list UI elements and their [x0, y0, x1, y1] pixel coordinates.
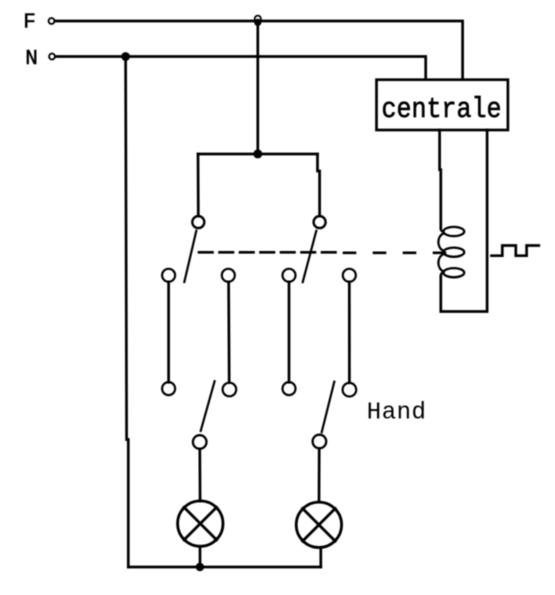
- hand switch S2 lower terminal: [313, 435, 327, 449]
- wire L2 to bottom rail: [319, 548, 322, 568]
- hand switch S2 blade: [322, 382, 335, 433]
- lamp L1: [178, 501, 223, 546]
- wire F: phase rail to centrale: [55, 21, 463, 80]
- relay contact K1 blade: [184, 231, 196, 282]
- relay contact K1 upper terminal: [192, 216, 204, 228]
- wire right contact drop: [318, 154, 320, 216]
- svg-text:Hand: Hand: [367, 400, 427, 427]
- wire column 2: [227, 282, 230, 383]
- hand switch S1 blade: [201, 381, 215, 431]
- contact lower terminal A4: [343, 269, 356, 282]
- junction dot F-tap: [254, 19, 261, 26]
- wire F-tap vertical: [256, 22, 259, 154]
- wire L1 to bottom rail: [199, 546, 202, 567]
- contact lower terminal A1: [162, 269, 175, 282]
- terminal B4: [343, 383, 357, 397]
- wire column 1: [167, 282, 170, 383]
- wire N: neutral to centrale: [56, 57, 426, 80]
- contact lower terminal A3: [283, 269, 296, 282]
- junction dot top bus: [253, 149, 262, 158]
- wire bottom rail: [128, 566, 320, 569]
- wire coil left lead: [440, 130, 441, 229]
- contact lower terminal A2: [222, 269, 235, 282]
- svg-text:N: N: [25, 48, 38, 71]
- wire S1 to lamp L1: [198, 449, 201, 501]
- wire coil bottom loop: [441, 130, 487, 312]
- terminal B2: [223, 383, 237, 397]
- relay contact K2 blade: [303, 231, 317, 282]
- wire contacts top bus: [198, 153, 318, 156]
- wire S2 to lamp L2: [318, 448, 321, 502]
- mechanical link dashed line segment 2: [344, 252, 448, 255]
- terminal F: [49, 18, 55, 24]
- box centrale U1: [377, 80, 508, 130]
- svg-text:centrale: centrale: [382, 93, 502, 126]
- pulse waveform symbol: [492, 246, 539, 256]
- svg-text:F: F: [23, 12, 36, 35]
- relay contact K2 upper terminal: [314, 216, 326, 228]
- junction dot bottom rail: [196, 563, 204, 571]
- terminal N: [49, 54, 55, 60]
- junction dot N rail: [121, 52, 130, 61]
- lamp L2: [296, 502, 341, 547]
- wire column 4: [348, 282, 351, 383]
- terminal B1: [162, 382, 175, 395]
- wire column 3: [288, 282, 291, 383]
- hand switch S1 lower terminal: [193, 435, 207, 449]
- wire left contact drop: [197, 154, 200, 216]
- terminal B3: [283, 382, 296, 395]
- coil K winding: [438, 227, 464, 277]
- wire left neutral rail: [126, 57, 129, 568]
- mechanical link dashed line to coil: [199, 251, 336, 254]
- node F-tap terminal circle: [255, 16, 261, 22]
